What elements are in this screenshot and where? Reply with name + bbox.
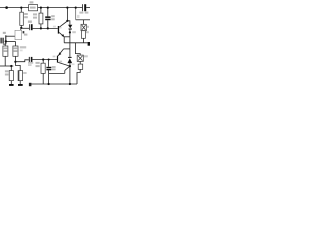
wire R4 top lead xyxy=(40,8,42,14)
wire bottom rail xyxy=(30,83,77,85)
wire chain riser xyxy=(77,69,80,84)
wire pot top lead xyxy=(20,28,22,30)
transistor T2 xyxy=(53,26,64,37)
wire C6 bottom lead xyxy=(19,81,21,84)
wire boxB top lead xyxy=(14,41,16,46)
node dot rail B xyxy=(20,7,22,9)
wire C3 left lead xyxy=(15,60,28,62)
node dot D2 bottom xyxy=(69,65,71,67)
node dot rail F xyxy=(75,7,77,9)
transformer T1 xyxy=(1,32,6,44)
wire emitter network diagonal xyxy=(65,66,70,70)
wire R7 top lead xyxy=(42,60,44,64)
wire emitter horizontal xyxy=(64,36,70,38)
node dot rail A xyxy=(5,6,8,9)
capacitor C5 xyxy=(79,4,88,13)
resistor R1 xyxy=(29,1,38,10)
wire C7 top lead xyxy=(48,60,50,67)
transistor T3 xyxy=(53,52,63,62)
wire boxB bottom lead xyxy=(14,56,16,61)
terminal blob right xyxy=(88,42,90,46)
node dot C7 top xyxy=(48,59,50,61)
wire D1 to dot xyxy=(69,29,71,32)
wire T1 mid to boxB xyxy=(6,40,16,42)
wire T3 emitter diagonal xyxy=(58,49,64,56)
wire R5 top lead xyxy=(10,66,12,71)
wire speaker top line xyxy=(76,19,90,21)
wire T1 secondary vertical xyxy=(5,35,7,44)
wire boxA top lead xyxy=(4,44,6,46)
resistor boxB xyxy=(13,46,26,56)
wire R7 bottom lead xyxy=(42,73,44,84)
wire chain top lead xyxy=(76,43,81,55)
wire speaker drop xyxy=(63,37,65,43)
wire speaker line xyxy=(64,42,87,44)
wire R4 bottom lead xyxy=(40,24,42,29)
node dot C2 xyxy=(47,27,49,29)
capacitor C3 xyxy=(28,57,33,66)
node dot rail C xyxy=(40,7,42,9)
wire boxA bottom lead xyxy=(4,56,6,66)
node dot rail E xyxy=(66,7,68,9)
node dot rail C7 xyxy=(48,83,50,85)
wire emitter network vertical xyxy=(64,70,66,73)
wire T1 bottom stub xyxy=(3,43,6,45)
capacitor C6 xyxy=(18,71,27,81)
connector box2 xyxy=(78,64,83,69)
wire T2 emitter diagonal xyxy=(59,32,64,36)
ground bar C6 xyxy=(18,84,23,86)
wire top rail mid xyxy=(38,7,83,9)
resistor R4 xyxy=(33,13,43,24)
wire C7 bottom lead xyxy=(48,70,50,84)
resistor R8 xyxy=(81,31,88,39)
resistor boxA xyxy=(3,46,8,56)
resistor R7 xyxy=(36,62,46,74)
resistor R5 xyxy=(5,70,14,80)
capacitor C2 xyxy=(45,15,55,20)
node dot R2 bottom xyxy=(20,27,22,29)
node dot rail main xyxy=(69,83,71,85)
wire R2 top lead xyxy=(20,8,22,13)
wire top rail right xyxy=(86,7,90,9)
node dot R7 top xyxy=(42,58,44,60)
node dot R4 xyxy=(40,27,42,29)
wire C2 bottom lead xyxy=(47,20,49,28)
wire C6 jog xyxy=(15,62,20,71)
wire D2 top lead xyxy=(69,49,71,57)
node dot rail D xyxy=(47,7,49,9)
wire rail to speaker vertical xyxy=(75,8,77,20)
node dot D1 bottom xyxy=(69,31,71,33)
wire mid vertical xyxy=(69,32,71,49)
wire R2 bottom lead xyxy=(20,25,22,27)
node dot T1 xyxy=(5,40,7,42)
capacitor C4 xyxy=(28,21,33,31)
wire R8 bottom lead xyxy=(83,38,85,43)
capacitor C7 xyxy=(46,66,55,70)
wire D1 jog xyxy=(67,21,70,25)
wire emitter network horizontal xyxy=(49,72,65,74)
wire node line mid xyxy=(33,27,58,29)
wire top rail left xyxy=(0,7,29,9)
diode D2 xyxy=(68,57,75,65)
wire main bottom vertical xyxy=(69,66,71,84)
wire T2 collector vertical xyxy=(66,8,68,21)
label near speaker line xyxy=(77,15,80,18)
ground bar R5 xyxy=(9,84,14,86)
wire T1 top to pot xyxy=(6,35,15,37)
wire T3 emitter horizontal xyxy=(64,48,70,50)
wire node line bottom xyxy=(32,59,57,61)
wire D2 bottom lead xyxy=(69,63,71,66)
wire node line left xyxy=(21,27,29,29)
wire chain mid lead xyxy=(79,61,81,64)
diode D1 xyxy=(68,25,76,33)
potentiometer box xyxy=(15,30,27,39)
resistor R2 xyxy=(20,12,28,25)
speaker BF1 xyxy=(81,24,89,30)
wire T2 collector diagonal xyxy=(59,21,67,27)
wire C2 top lead xyxy=(47,8,49,17)
node dot T2 collector xyxy=(66,20,68,22)
node dot boxB bottom xyxy=(14,61,16,63)
speaker BF2 xyxy=(77,55,88,61)
node dot y66 xyxy=(10,65,12,67)
wire y66 line xyxy=(0,65,13,67)
wire T3 collector diagonal xyxy=(58,62,70,66)
wire spk1 top lead xyxy=(83,20,85,25)
wire R5 bottom lead xyxy=(10,81,12,84)
